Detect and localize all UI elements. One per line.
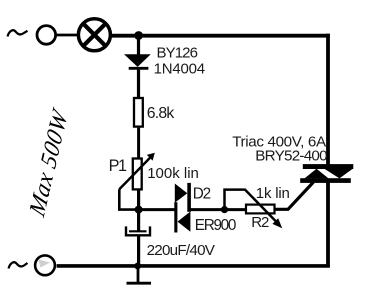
svg-text:BRY52-400: BRY52-400 (255, 147, 327, 164)
svg-text:1N4004: 1N4004 (154, 61, 205, 78)
svg-text:R2: R2 (251, 214, 269, 231)
svg-text:100k lin: 100k lin (147, 165, 199, 182)
svg-text:1k lin: 1k lin (256, 185, 290, 202)
svg-text:P1: P1 (109, 157, 127, 175)
svg-text:220uF/40V: 220uF/40V (147, 242, 216, 259)
svg-text:D2: D2 (193, 185, 211, 202)
svg-text:6.8k: 6.8k (147, 105, 175, 122)
svg-text:BY126: BY126 (157, 45, 198, 62)
svg-text:ER900: ER900 (195, 217, 236, 234)
